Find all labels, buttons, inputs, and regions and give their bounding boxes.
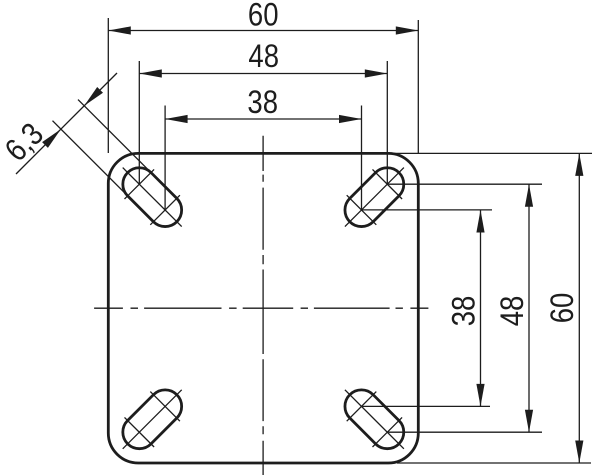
dim 38 top right arrow (339, 115, 362, 123)
dim 60 right dimension line (578, 153, 580, 463)
dim 38 right lower arrow (476, 384, 484, 407)
slot top-right inner center tick (347, 195, 377, 225)
slot top-right outer center tick (373, 169, 403, 199)
dim 38 right lower extension line (363, 405, 491, 407)
dim 38 top right extension line (361, 106, 363, 211)
dim 6,3 upper arrow (84, 87, 103, 106)
dim 48 top left extension line (138, 61, 140, 184)
slot bottom-right outline (338, 383, 410, 455)
dim 48 right dimension line (528, 184, 530, 432)
slot top-left outline (116, 161, 188, 233)
dim 48 right lower arrow (525, 410, 533, 433)
dim 38 top dimension line (165, 118, 361, 120)
dim 60 right lower extension line (397, 462, 591, 464)
dim 60 top right arrow (396, 26, 419, 34)
dim 6,3 lower-side extension line (78, 100, 151, 173)
slot bottom-left axis centerline (123, 390, 182, 449)
dim 60 right upper arrow (575, 153, 583, 176)
dim 60 right upper extension line (389, 152, 592, 154)
slot bottom-right inner center tick (347, 392, 377, 422)
slot top-right outline (338, 161, 410, 233)
dim 60 top dimension line (108, 30, 418, 32)
slot bottom-right outer center tick (373, 417, 403, 447)
svg-text:60: 60 (248, 0, 279, 33)
slot bottom-left outline (116, 383, 188, 455)
svg-text:48: 48 (248, 39, 279, 74)
slot top-left axis centerline (123, 168, 182, 227)
svg-text:38: 38 (247, 85, 278, 120)
slot top-right axis centerline (345, 168, 404, 227)
dim 48 right upper arrow (525, 184, 533, 207)
plate outline (108, 153, 418, 463)
horizontal centerline (94, 307, 428, 309)
dim 48 right lower extension line (388, 431, 542, 433)
svg-text:60: 60 (545, 293, 580, 324)
slot top-left inner center tick (150, 195, 180, 225)
slot bottom-right axis centerline (345, 390, 404, 449)
dim 48 top dimension line (139, 73, 387, 75)
dim 48 top right arrow (365, 69, 388, 77)
dim 38 right upper extension line (363, 209, 493, 211)
dim 38 top left arrow (165, 115, 188, 123)
dim 6,3 lower arrow (42, 129, 61, 148)
dim 38 right dimension line (480, 210, 482, 406)
slot bottom-left outer center tick (125, 417, 155, 447)
dim 48 right upper extension line (388, 183, 542, 185)
slot bottom-left inner center tick (150, 392, 180, 422)
dim 48 top right extension line (386, 61, 388, 184)
dim 38 top left extension line (164, 106, 166, 211)
dim 6,3 upper-side extension line (53, 121, 129, 197)
dim 48 top left arrow (139, 69, 162, 77)
dim 6,3 dimension line (16, 73, 117, 174)
svg-text:38: 38 (447, 296, 482, 327)
vertical centerline (262, 136, 264, 475)
dim 60 top right extension line (417, 20, 419, 153)
dim 60 right lower arrow (575, 441, 583, 464)
svg-text:48: 48 (495, 296, 530, 327)
dim 60 top left arrow (108, 26, 131, 34)
dim 60 top left extension line (107, 18, 109, 153)
dim 38 right upper arrow (476, 210, 484, 233)
slot top-left outer center tick (125, 169, 155, 199)
